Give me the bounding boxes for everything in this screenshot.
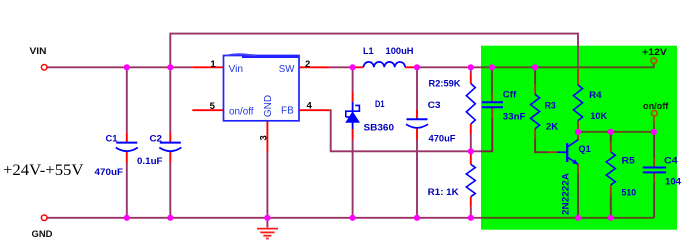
svg-text:33nF: 33nF (503, 111, 526, 122)
junction pin3 bottom (264, 215, 270, 221)
pin 2 stub of U1 (299, 66, 329, 68)
wire R1 bottom (470, 207, 472, 218)
wire C4 upper (653, 132, 655, 158)
pin stub Q1 base wire (547, 151, 557, 153)
junction D1 top node (350, 64, 356, 70)
wire FB net (330, 110, 481, 151)
junction C2 bottom (167, 215, 173, 221)
pin stub R4 bottom (577, 121, 579, 132)
capacitor Cff (482, 102, 503, 107)
pin stub Q1 collector (577, 132, 579, 140)
pin stub C3 top (416, 109, 418, 119)
inductor L1 (364, 62, 406, 67)
svg-text:on/off: on/off (643, 101, 669, 112)
pin stub R3 bottom (534, 129, 536, 139)
wire SW to D1 node (329, 66, 352, 68)
wire R3 top stub (534, 67, 536, 84)
pin stub Q1 emitter (577, 164, 579, 174)
wire R5 top stub (610, 132, 612, 143)
capacitor C1 (116, 143, 138, 152)
pin stub C2 bottom (169, 151, 171, 162)
pin 3 stub of U1 (266, 121, 268, 152)
svg-text:104: 104 (665, 177, 682, 188)
junction D1 bottom (350, 215, 356, 221)
pin stub D1 bottom (352, 129, 354, 140)
wire top rail from C2 node up and across to R4 (170, 34, 578, 68)
capacitor C2 (159, 143, 181, 152)
svg-text:Q1: Q1 (579, 144, 592, 155)
wire C1 branch lower (126, 163, 128, 218)
wire ground rail inside green (481, 217, 654, 219)
wire D1 cathode lower (352, 140, 354, 218)
diode D1 SB360 (345, 102, 360, 129)
wire C1 branch upper (126, 67, 128, 132)
svg-text:C2: C2 (150, 133, 163, 144)
wire C2 branch upper (169, 67, 171, 132)
wire output net inside green to +12V (481, 63, 654, 67)
wire C3 branch upper (416, 67, 418, 109)
pin stub R1 bottom (470, 197, 472, 207)
wire ground bottom rail (47, 217, 481, 219)
svg-text:10K: 10K (590, 111, 607, 122)
wire C3 branch lower (416, 140, 418, 218)
svg-text:470uF: 470uF (95, 167, 124, 178)
svg-text:R4: R4 (589, 90, 602, 101)
junction R5 top node (608, 129, 614, 135)
wire C4 bottom vertical (653, 182, 655, 218)
terminal +12V (651, 58, 657, 64)
IC U1 buck regulator box (pins: 1 Vin, 2 SW, 5 on/off, 3 GND, 4 FB) (224, 54, 300, 121)
terminal GND (41, 215, 47, 221)
junction C2 top (167, 64, 173, 70)
wire R5 bottom (610, 196, 612, 218)
junction R2 top (468, 64, 474, 70)
svg-text:2N2222A: 2N2222A (560, 173, 571, 215)
svg-text:SW: SW (279, 64, 295, 75)
svg-text:4: 4 (307, 101, 313, 112)
svg-text:2K: 2K (546, 122, 558, 133)
pin stub D1 top (352, 92, 354, 102)
wire pin3 lower (266, 152, 268, 218)
junction R5 bottom (608, 215, 614, 221)
wire Cff top stub (491, 67, 493, 93)
pin stub R1 top (470, 151, 472, 164)
terminal VIN (41, 65, 47, 71)
svg-text:1: 1 (210, 59, 216, 70)
svg-text:R1: 1K: R1: 1K (428, 187, 459, 198)
svg-text:2: 2 (305, 59, 310, 70)
svg-text:FB: FB (281, 106, 294, 117)
resistor R3 (531, 94, 540, 128)
svg-text:R2:59K: R2:59K (429, 79, 461, 90)
junction R1 bottom (468, 215, 474, 221)
wire Q1 emitter lower (577, 174, 579, 218)
svg-text:GND: GND (263, 95, 274, 117)
green highlight region (481, 46, 677, 230)
capacitor C4 (643, 168, 666, 173)
pin stub R4 top (577, 69, 579, 86)
junction R3 top (532, 64, 538, 70)
pin 5 stub of U1 (192, 109, 223, 111)
svg-text:470uF: 470uF (429, 133, 456, 144)
svg-text:+24V-+55V: +24V-+55V (3, 162, 84, 179)
resistor R5 (606, 152, 615, 185)
pin stub C2 top (169, 133, 171, 143)
wire VIN net horizontal (47, 66, 192, 68)
pin stub C4 bottom (653, 172, 655, 182)
wire C2 branch lower (169, 163, 171, 218)
junction C3 bottom (414, 215, 420, 221)
svg-text:D1: D1 (375, 99, 385, 110)
junction Q1 collector node (575, 129, 581, 135)
junction on/off node (651, 129, 657, 135)
svg-text:SB360: SB360 (364, 123, 395, 134)
svg-text:VIN: VIN (30, 46, 47, 57)
ground earth symbol (257, 218, 278, 239)
svg-text:Cff: Cff (503, 90, 517, 101)
resistor R2 (466, 84, 475, 125)
pin stub L1 right (405, 66, 417, 68)
pin stub C1 bottom (126, 151, 128, 162)
terminal on/off (652, 111, 658, 117)
wire R2 bottom to FB node (470, 134, 472, 151)
pin stub C1 top (126, 133, 128, 143)
junction Cff top (489, 64, 495, 70)
pin stub C3 bottom (416, 128, 418, 140)
pin stub L1 left (353, 66, 364, 68)
pin stub R5 bottom (610, 185, 612, 196)
wire R2 top stub (470, 67, 472, 73)
svg-text:+12V: +12V (642, 47, 667, 58)
junction FB node (468, 148, 474, 154)
svg-text:C1: C1 (106, 133, 119, 144)
junction C1 bottom (124, 215, 130, 221)
junction Q1 emitter bottom (575, 215, 581, 221)
junction C1 top (124, 64, 130, 70)
svg-text:L1: L1 (363, 46, 374, 57)
wire R3 bottom to Q1 base (535, 139, 547, 153)
svg-text:R3: R3 (545, 101, 556, 112)
capacitor C3 (406, 119, 428, 128)
pin stub C4 top (653, 158, 655, 168)
svg-text:3: 3 (258, 135, 269, 140)
pin stub R3 top (534, 84, 536, 94)
pin stub on/off terminal (653, 116, 655, 123)
pin 1 stub of U1 (192, 66, 223, 68)
pin stub Cff bottom (491, 108, 493, 119)
resistor R4 (574, 85, 583, 121)
wire D1 anode upper (352, 67, 354, 92)
resistor R1 (466, 164, 475, 196)
svg-text:510: 510 (622, 187, 637, 198)
svg-text:Vin: Vin (229, 64, 244, 75)
pin 4 stub of U1 (299, 109, 330, 111)
svg-text:C4: C4 (664, 156, 678, 167)
pin stub Cff top (491, 93, 493, 103)
wire FB net inside green to Cff (481, 118, 492, 151)
wire output net L1 to green edge (417, 66, 481, 68)
svg-text:100uH: 100uH (386, 46, 414, 57)
svg-text:5: 5 (210, 101, 216, 112)
junction C3 top (414, 64, 420, 70)
svg-text:0.1uF: 0.1uF (137, 156, 163, 167)
pin stub R5 top (610, 143, 612, 152)
svg-text:GND: GND (32, 229, 53, 240)
wire collector node row (578, 131, 654, 133)
svg-text:R5: R5 (622, 156, 636, 167)
pin stub R2 top (470, 74, 472, 84)
svg-text:C3: C3 (428, 100, 441, 111)
pin stub R2 bottom (470, 124, 472, 134)
svg-text:on/off: on/off (229, 106, 254, 117)
transistor Q1 2N2222A (557, 140, 578, 165)
